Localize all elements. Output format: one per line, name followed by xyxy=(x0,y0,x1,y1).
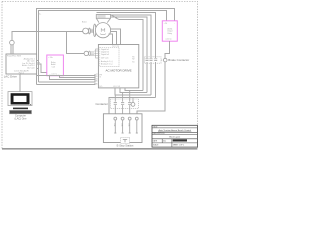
coupling small ellipse xyxy=(89,28,91,34)
wire branch to encoder xyxy=(67,31,85,53)
svg-text:Relay: Relay xyxy=(167,33,172,35)
source pole bodies xyxy=(115,120,137,133)
motor smile arc xyxy=(100,33,106,36)
wire motor to drive 3 xyxy=(110,29,120,45)
indicator circle on LAC drive xyxy=(10,40,15,45)
svg-text:DESCRIPTION: DESCRIPTION xyxy=(153,133,165,135)
wire drive input 1 xyxy=(37,74,95,76)
contactor pole 3 xyxy=(128,90,131,117)
encoder coupling ellipse xyxy=(89,51,91,56)
encoder circle xyxy=(84,51,88,55)
relay box K1 (pink) xyxy=(47,55,64,76)
motor terminal cap xyxy=(96,15,110,19)
wire brake row 1 lower xyxy=(146,62,148,93)
keyboard xyxy=(10,110,32,113)
wire drive input 5 xyxy=(36,83,95,85)
coupling big ellipse xyxy=(94,24,96,37)
wire motor to drive 1 xyxy=(109,34,113,44)
brake contact 1 xyxy=(146,59,149,61)
wire bus A (top) xyxy=(36,8,174,84)
contactor coil xyxy=(131,103,135,107)
brake contactor dashed box xyxy=(145,57,162,63)
LAC drive box xyxy=(6,54,37,74)
svg-text:4+: 4+ xyxy=(39,13,41,15)
svg-text:Brake: Brake xyxy=(82,21,87,23)
wire motor to drive 2 xyxy=(110,32,116,45)
cap hatch xyxy=(97,16,105,18)
source pole 1 terminal xyxy=(114,117,117,120)
monitor bezel xyxy=(11,93,30,104)
wire motor to brake contactor 1 xyxy=(111,15,151,58)
brake contactor coil xyxy=(163,58,167,62)
drive parameter dashed box xyxy=(100,48,119,67)
wire bus B (top) xyxy=(39,10,167,82)
wire brake row 3 lower xyxy=(155,62,157,98)
source fuse labels xyxy=(113,123,130,127)
svg-text:Contactor: Contactor xyxy=(95,102,108,106)
drive parameter texts xyxy=(101,48,113,65)
svg-text:Digital In3: Digital In3 xyxy=(101,53,109,56)
coupling shaft hatch xyxy=(90,29,93,32)
page border bottom band xyxy=(2,148,197,150)
wire brake coil return xyxy=(137,62,165,117)
wire motor to brake contactor 2 xyxy=(111,17,147,58)
svg-text:E-Stop Station: E-Stop Station xyxy=(117,144,134,148)
svg-text:AC MOTOR DRIVE: AC MOTOR DRIVE xyxy=(106,68,132,72)
brake contact 3 xyxy=(154,59,157,61)
encoder terminal block on drive xyxy=(96,49,100,58)
contactor dashed box xyxy=(110,99,138,109)
e-stop button symbol xyxy=(123,139,127,142)
brake contactor link dashed xyxy=(161,59,163,61)
drive right pin texts xyxy=(132,56,134,63)
wire K2 to brake coil xyxy=(165,41,169,58)
svg-text:36: 36 xyxy=(96,83,98,85)
wire bypass neutral xyxy=(109,98,156,114)
svg-text:com no: com no xyxy=(166,39,172,41)
AC motor drive box xyxy=(98,45,138,88)
wire motor diagonal to right vertical xyxy=(111,15,144,91)
svg-text:+ 24v: + 24v xyxy=(48,57,53,59)
LAC drive right stubs xyxy=(37,60,40,68)
monitor stand bar xyxy=(13,108,28,110)
svg-text:Brake Contactor: Brake Contactor xyxy=(168,58,189,62)
brake unit circle xyxy=(83,28,89,34)
svg-text:SHEET 1 OF 1: SHEET 1 OF 1 xyxy=(173,145,184,147)
cap skirt xyxy=(96,18,110,22)
title block dark cell xyxy=(173,139,187,141)
title block column lines xyxy=(162,139,172,147)
wire drop to indicator circle xyxy=(11,31,13,40)
title block row lines xyxy=(152,128,197,143)
svg-text:SCALE: SCALE xyxy=(153,144,159,147)
wire drive out 2 xyxy=(120,88,147,93)
svg-text:S1: S1 xyxy=(132,62,134,64)
encoder terminal pins xyxy=(94,51,98,56)
wire LAC drive to computer xyxy=(19,74,21,92)
brake contact 2 xyxy=(150,59,153,61)
source pole 3 terminal xyxy=(128,117,131,120)
wire stub to relay K1 com xyxy=(37,64,47,72)
wire drive input 3 xyxy=(49,76,95,80)
svg-text:R2: R2 xyxy=(132,58,134,60)
wire drive input 2 xyxy=(60,76,95,78)
wire bus C (top) xyxy=(96,12,155,58)
wire drive input 4 xyxy=(39,80,96,82)
contactor pole 1 xyxy=(114,95,117,117)
motor M letter xyxy=(101,28,105,31)
source pole 2 terminal xyxy=(121,117,124,120)
source pole bottom hooks xyxy=(114,132,138,134)
source box xyxy=(103,114,142,143)
monitor led xyxy=(29,103,32,106)
indicator legs xyxy=(11,45,13,54)
title block frame xyxy=(152,125,197,147)
svg-text:+ 24: + 24 xyxy=(164,23,168,25)
wire brake signal horizontal xyxy=(12,30,83,32)
contactor coil stub xyxy=(132,98,134,103)
wire drive out 1 xyxy=(125,88,143,90)
svg-text:PowerFlex 700S: PowerFlex 700S xyxy=(7,55,22,58)
title underline xyxy=(158,131,191,133)
motor M1 circle xyxy=(95,23,110,38)
wire brake row 2 lower xyxy=(150,62,152,95)
svg-text:Block Layout: Block Layout xyxy=(169,135,180,138)
svg-text:LAC Drive: LAC Drive xyxy=(4,75,18,79)
relay box K2 (pink) xyxy=(162,21,177,41)
svg-text:L1 L2 L3: L1 L2 L3 xyxy=(113,86,120,88)
svg-text:6/xx: 6/xx xyxy=(163,140,166,142)
wire drive out 3 xyxy=(115,88,151,95)
computer monitor case xyxy=(8,92,32,106)
svg-text:(LAC) One: (LAC) One xyxy=(15,118,28,121)
e-stop dashed box xyxy=(121,137,130,143)
svg-text:Port 2: Port 2 xyxy=(19,71,24,74)
drive input pin labels xyxy=(96,74,98,85)
encoder shaft hatch xyxy=(90,52,94,56)
svg-text:24v Com: 24v Com xyxy=(27,68,35,70)
page border xyxy=(2,1,197,148)
monitor screen xyxy=(14,96,27,102)
LAC drive box pin texts xyxy=(22,57,35,69)
svg-text:— com nc —: — com nc — xyxy=(49,73,60,75)
source pole 4 terminal xyxy=(135,117,138,120)
contactor pole 2 xyxy=(121,93,124,118)
svg-text:Analog In 1 (-): Analog In 1 (-) xyxy=(101,63,113,66)
svg-text:24V Com: 24V Com xyxy=(101,58,109,60)
svg-text:DC-: DC- xyxy=(100,86,103,88)
svg-text:35: 35 xyxy=(96,81,98,83)
